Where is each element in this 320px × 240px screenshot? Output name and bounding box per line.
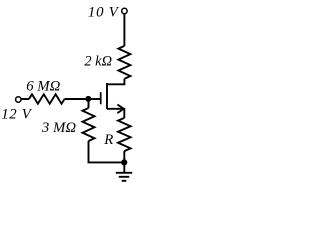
resistor 3 MΩ	[83, 108, 95, 141]
node: gate junction	[85, 96, 91, 102]
wire: source of Q1 to R top	[107, 109, 124, 118]
terminal: 10 V supply	[122, 8, 127, 13]
resistor 2 kΩ	[118, 46, 130, 79]
svg-text:R: R	[103, 132, 113, 148]
node: source/ground junction	[121, 159, 127, 165]
wire: 6M resistor to gate node	[65, 98, 89, 100]
resistor 6 MΩ	[29, 94, 65, 103]
transistor Q1 channel bar	[106, 83, 108, 109]
svg-text:2 kΩ: 2 kΩ	[84, 54, 112, 70]
wire: gate node down to 3M resistor	[88, 99, 90, 108]
svg-text:12 V: 12 V	[1, 107, 33, 123]
terminal: 12 V input	[16, 97, 21, 102]
wire: R bottom to ground node	[123, 151, 125, 162]
wire: 12V terminal to 6M resistor	[21, 98, 29, 100]
ground	[116, 162, 132, 180]
svg-text:6 MΩ: 6 MΩ	[26, 79, 60, 95]
wire: gate node to gate bar	[89, 98, 101, 100]
wire: 3M bottom to ground node	[89, 141, 125, 162]
wire: 2k bottom to drain of Q1	[107, 79, 124, 85]
svg-text:3 MΩ: 3 MΩ	[41, 120, 76, 136]
svg-text:10 V: 10 V	[88, 5, 120, 21]
resistor R	[118, 118, 131, 151]
transistor Q1 gate bar	[100, 92, 102, 104]
transistor Q1 source arrow	[117, 105, 123, 114]
wire: 10V terminal down to 2k resistor top	[123, 14, 125, 46]
